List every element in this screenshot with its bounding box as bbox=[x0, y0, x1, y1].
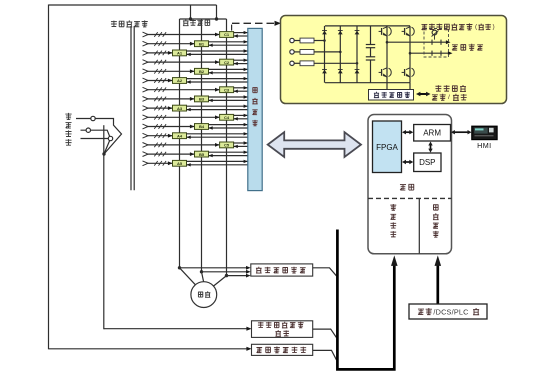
svg-text:B5: B5 bbox=[199, 152, 205, 157]
svg-text:B2: B2 bbox=[199, 69, 205, 74]
svg-text:A2: A2 bbox=[177, 78, 183, 83]
svg-text:B3: B3 bbox=[199, 97, 205, 102]
svg-text:A4: A4 bbox=[177, 133, 183, 138]
svg-text:DSP: DSP bbox=[419, 158, 435, 167]
svg-text:A3: A3 bbox=[177, 106, 183, 111]
svg-text:B1: B1 bbox=[199, 41, 205, 46]
svg-text:C3: C3 bbox=[224, 87, 230, 92]
svg-text:C1: C1 bbox=[224, 32, 230, 37]
svg-text:/: / bbox=[448, 94, 450, 101]
svg-text:C5: C5 bbox=[224, 143, 230, 148]
svg-text:FPGA: FPGA bbox=[376, 143, 398, 152]
svg-text:A5: A5 bbox=[177, 161, 183, 166]
svg-text:ARM: ARM bbox=[423, 129, 441, 138]
svg-text:HMI: HMI bbox=[477, 141, 491, 150]
svg-text:): ) bbox=[493, 24, 495, 31]
svg-text:/DCS/PLC: /DCS/PLC bbox=[433, 307, 468, 316]
svg-text:C2: C2 bbox=[224, 60, 230, 65]
svg-text:B4: B4 bbox=[199, 124, 205, 129]
svg-text:C4: C4 bbox=[224, 115, 230, 120]
svg-text:A1: A1 bbox=[177, 51, 183, 56]
